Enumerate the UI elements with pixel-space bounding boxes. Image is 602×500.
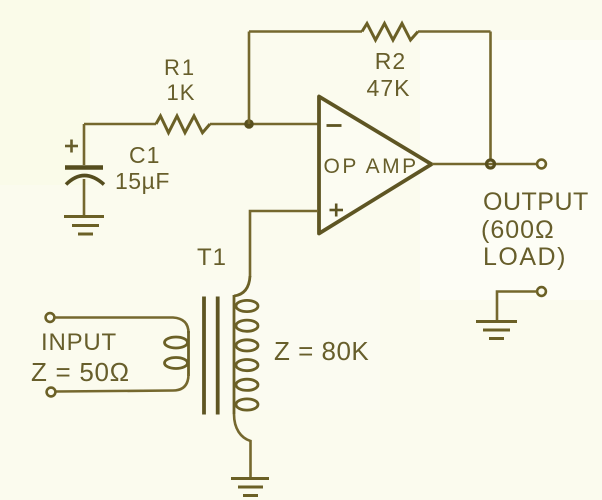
wire junction up to feedback <box>248 32 251 125</box>
svg-text:47K: 47K <box>367 75 411 101</box>
svg-text:(600Ω: (600Ω <box>481 216 555 244</box>
transformer T1 primary winding <box>165 331 189 376</box>
wire feedback top run to R2 <box>249 30 362 33</box>
svg-text:C1: C1 <box>129 142 160 168</box>
wire R2 right to corner <box>418 30 491 33</box>
svg-text:15µF: 15µF <box>115 168 170 194</box>
svg-text:Z = 80K: Z = 80K <box>274 336 369 366</box>
ground (C1) <box>64 217 104 235</box>
svg-text:LOAD): LOAD) <box>483 243 567 271</box>
ground (load) <box>476 322 517 339</box>
wire from C1 top to R1 left lead <box>84 123 156 126</box>
wire non-inverting input to transformer secondary <box>250 211 318 277</box>
wire primary bottom to input bottom terminal <box>56 374 189 392</box>
svg-text:OP AMP: OP AMP <box>324 155 419 178</box>
wire feedback down to output node <box>489 32 492 161</box>
svg-text:1K: 1K <box>167 80 196 105</box>
transformer T1 core <box>204 297 218 415</box>
resistor R2 <box>362 24 418 41</box>
input terminal bottom <box>47 388 56 397</box>
svg-text:R1: R1 <box>164 55 196 80</box>
node output junction <box>487 160 495 168</box>
op-amp non-inverting input marker <box>330 204 344 217</box>
node junction at inverting input <box>244 119 254 129</box>
capacitor C1 <box>65 124 104 215</box>
transformer T1 secondary winding <box>234 276 258 414</box>
output terminal <box>537 160 546 169</box>
wire input top to primary <box>55 318 189 334</box>
wire load terminal to ground <box>497 292 537 322</box>
svg-text:T1: T1 <box>197 244 227 271</box>
wire secondary bottom to ground <box>234 414 251 477</box>
svg-text:Z = 50Ω: Z = 50Ω <box>31 357 130 387</box>
ground (secondary) <box>231 479 269 496</box>
wire op-amp output to terminal <box>432 163 537 166</box>
op-amp U1 <box>319 97 432 234</box>
svg-text:R2: R2 <box>375 48 406 74</box>
load ground terminal <box>537 287 546 296</box>
capacitor C1 polarity plus <box>65 140 78 153</box>
op-amp inverting input marker <box>327 124 342 127</box>
resistor R1 <box>156 116 210 133</box>
svg-text:OUTPUT: OUTPUT <box>483 188 589 216</box>
input terminal top <box>46 313 55 322</box>
svg-text:INPUT: INPUT <box>41 329 117 356</box>
wire from R1 to op-amp inverting input <box>210 123 318 126</box>
